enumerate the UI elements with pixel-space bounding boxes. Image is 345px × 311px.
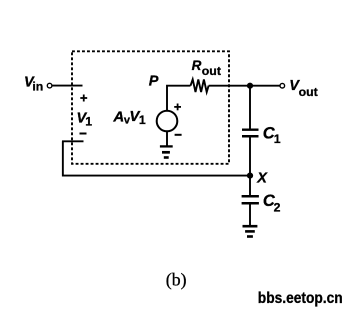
label Vin <box>24 75 43 94</box>
svg-text:X: X <box>256 170 268 186</box>
svg-text:1: 1 <box>274 132 281 146</box>
wire node X down to C2 <box>249 176 251 195</box>
dashed amplifier box <box>72 51 229 164</box>
minus sign of input port V1 <box>80 133 87 135</box>
capacitor C2 <box>242 196 259 203</box>
wire input bottom terminal tick <box>62 140 84 142</box>
svg-text:in: in <box>32 80 43 94</box>
svg-text:out: out <box>202 64 221 78</box>
junction dot at output node <box>247 83 253 89</box>
wire feedback (left down and along bottom to node X) <box>63 141 250 175</box>
svg-text:1: 1 <box>85 114 92 128</box>
wire C1 bottom to node X <box>249 137 251 175</box>
wire source bottom to ground <box>166 131 168 146</box>
svg-text:R: R <box>192 58 202 73</box>
capacitor C1 <box>242 130 259 137</box>
plus sign of source <box>174 104 181 111</box>
wire resistor to Vout terminal <box>209 85 280 87</box>
svg-text:out: out <box>299 85 318 99</box>
svg-text:1: 1 <box>139 113 146 127</box>
ground below source <box>160 146 173 157</box>
terminal Vin <box>47 83 52 88</box>
wire output node down to C1 <box>249 86 251 129</box>
ground below C2 <box>243 226 258 236</box>
wire C2 bottom to ground <box>249 205 251 226</box>
node X junction dot <box>247 173 253 179</box>
resistor Rout <box>191 79 209 92</box>
svg-text:A: A <box>112 109 124 126</box>
dependent source U1 (AvV1) <box>157 111 178 132</box>
svg-text:(b): (b) <box>166 269 187 290</box>
label V1 <box>77 111 93 129</box>
watermark bbs.eetop.cn <box>258 290 343 307</box>
label AvV1 <box>112 108 145 127</box>
label Rout <box>192 58 221 78</box>
svg-text:P: P <box>149 74 159 90</box>
svg-text:2: 2 <box>274 200 281 214</box>
plus sign of input port V1 <box>80 95 87 102</box>
label C1 <box>263 125 281 146</box>
wire input top (Vin to port + terminal tick) <box>52 85 82 87</box>
label C2 <box>263 192 281 214</box>
terminal Vout <box>280 83 285 88</box>
label Vout <box>289 78 317 99</box>
wire node P (source top up to output line) <box>167 86 191 111</box>
minus sign of source <box>175 134 182 136</box>
svg-text:bbs.eetop.cn: bbs.eetop.cn <box>258 290 343 307</box>
